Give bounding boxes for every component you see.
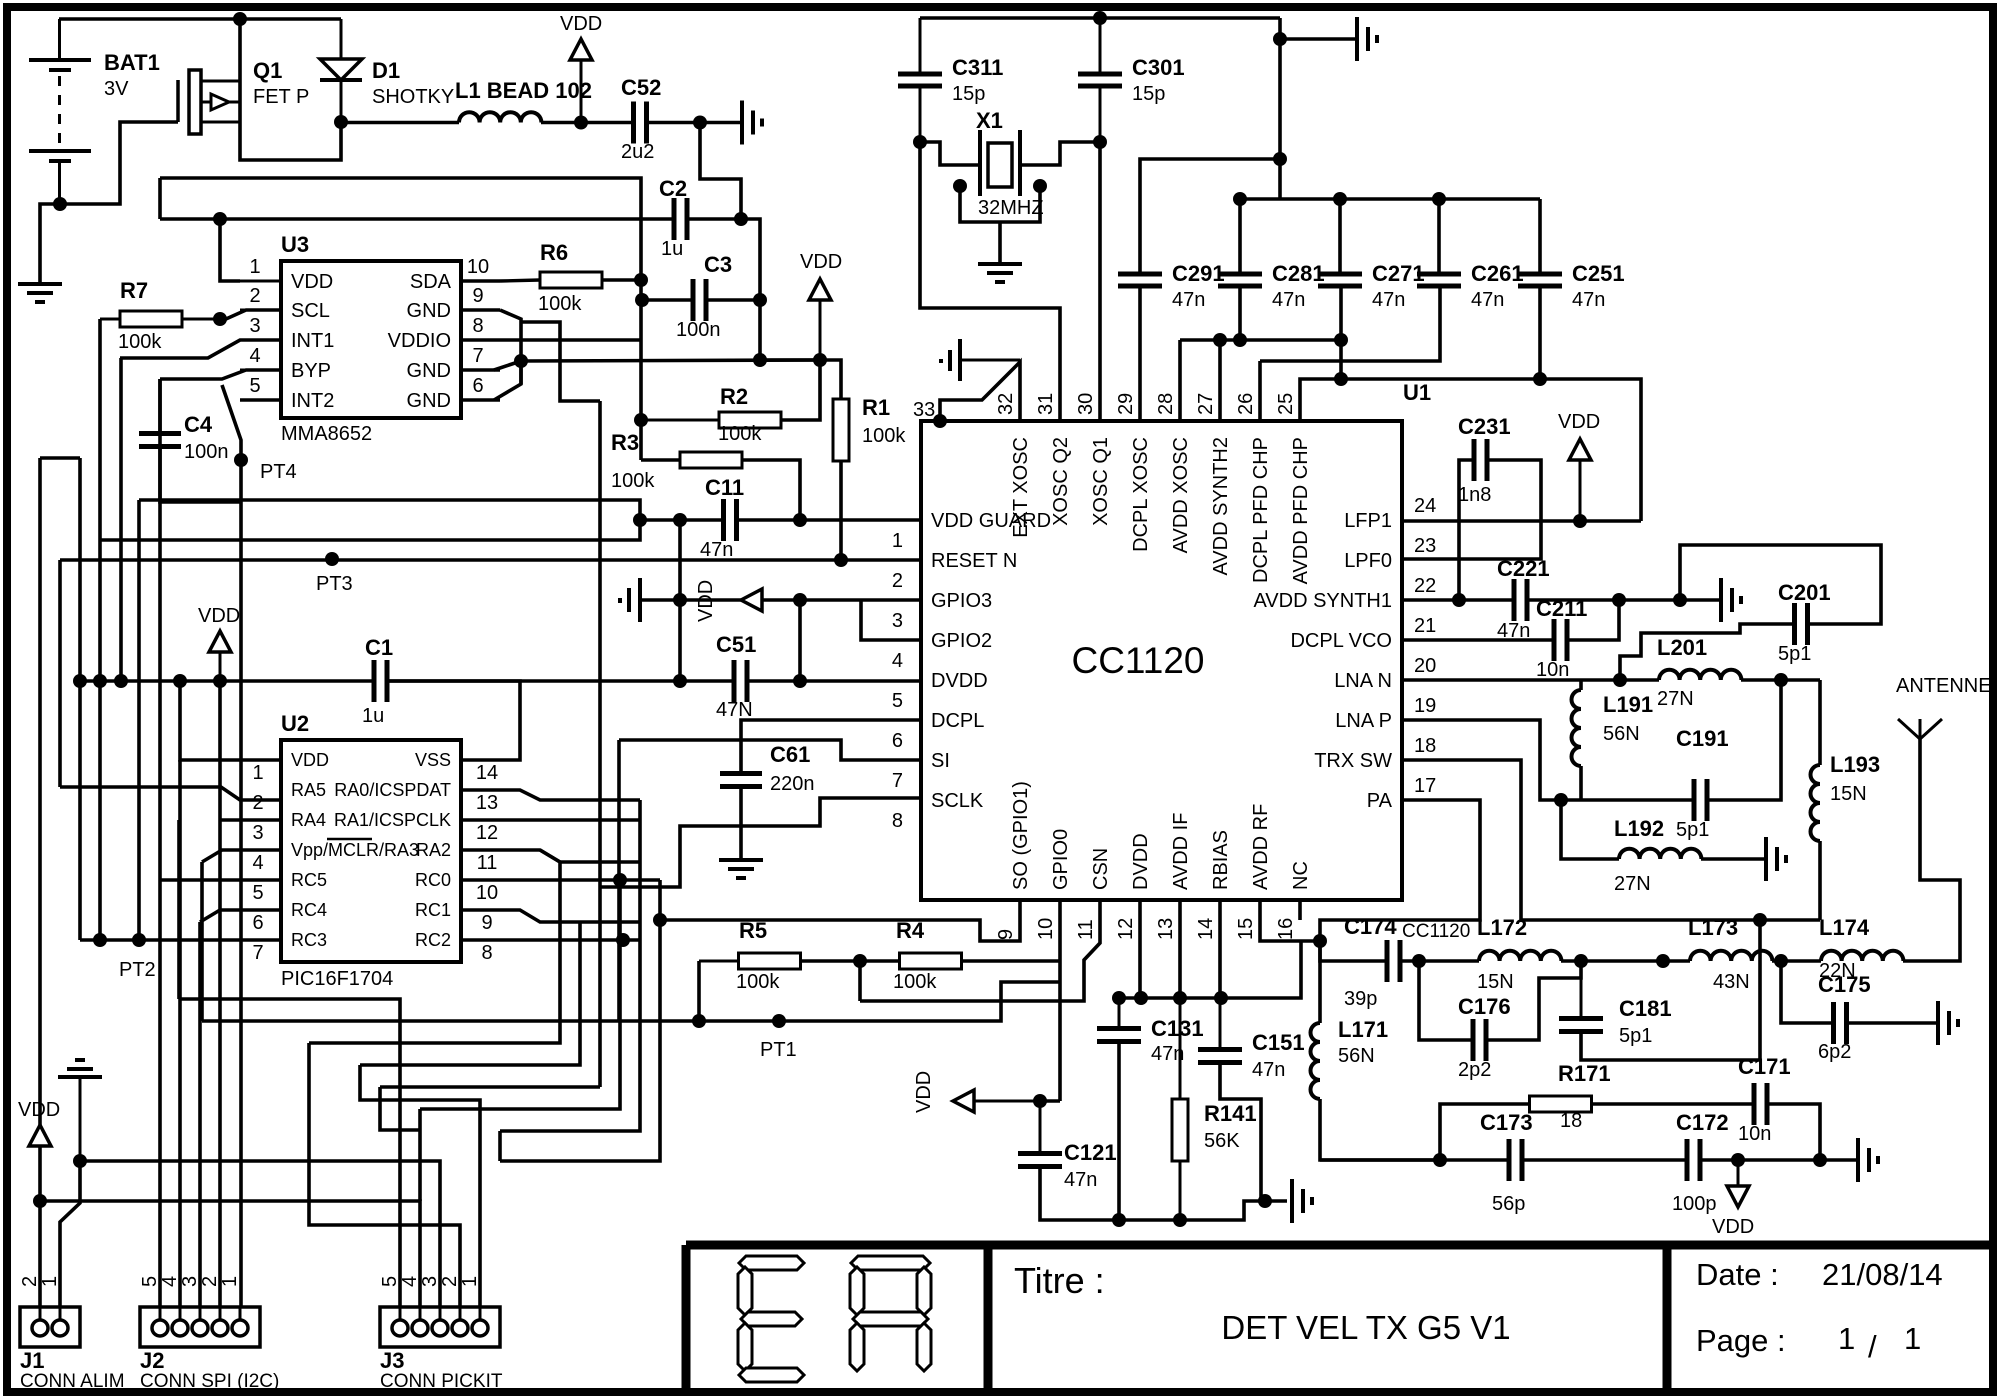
svg-text:47n: 47n bbox=[1572, 289, 1605, 311]
svg-text:R4: R4 bbox=[896, 918, 925, 943]
svg-text:U2: U2 bbox=[281, 711, 309, 736]
svg-text:RC2: RC2 bbox=[415, 930, 451, 950]
X1 case pin a bbox=[953, 179, 967, 193]
svg-text:100n: 100n bbox=[184, 441, 229, 463]
wire pin19 to C191 bbox=[1402, 720, 1694, 800]
svg-text:12: 12 bbox=[1115, 918, 1137, 940]
resistor R2 bbox=[719, 412, 781, 428]
svg-text:56N: 56N bbox=[1338, 1045, 1375, 1067]
svg-text:100p: 100p bbox=[1672, 1193, 1717, 1215]
svg-text:5p1: 5p1 bbox=[1619, 1025, 1652, 1047]
wire C191 right riser bbox=[1707, 680, 1781, 800]
wire C211 right up bbox=[1567, 600, 1619, 640]
svg-text:C251: C251 bbox=[1572, 261, 1625, 286]
svg-text:DCPL PFD CHP: DCPL PFD CHP bbox=[1250, 437, 1272, 583]
junction cap bus c261 bbox=[1432, 192, 1446, 206]
svg-text:PT3: PT3 bbox=[316, 573, 353, 595]
wire DCPL to C61 bbox=[741, 720, 921, 774]
svg-text:PIC16F1704: PIC16F1704 bbox=[281, 968, 393, 990]
svg-text:2p2: 2p2 bbox=[1458, 1059, 1491, 1081]
svg-text:C175: C175 bbox=[1818, 972, 1871, 997]
junction gnd mid bbox=[1258, 1194, 1272, 1208]
wire GPIO3 line bbox=[762, 598, 921, 602]
wire L173 to L174 bbox=[1772, 959, 1821, 963]
wire R171 left bbox=[1440, 1104, 1529, 1160]
rail x179 up bbox=[177, 820, 181, 999]
power VDD (mid upper) bbox=[819, 300, 822, 360]
power VDD (bottom down arrow) bbox=[1737, 1160, 1740, 1186]
junction VDD rail x180 bbox=[173, 674, 187, 688]
rail x40 VDD to J1 bbox=[38, 458, 42, 1318]
transistor Q1 (FET P) bbox=[176, 80, 180, 122]
wire C131 bottom bbox=[1117, 1042, 1121, 1220]
wire x1459 link bbox=[1457, 521, 1461, 600]
power VDD (arrow on GPIO3 line) bbox=[741, 589, 762, 611]
svg-text:L201: L201 bbox=[1657, 635, 1707, 660]
svg-text:EXT XOSC: EXT XOSC bbox=[1010, 437, 1032, 538]
svg-text:21: 21 bbox=[1414, 615, 1436, 637]
wire U2 RC2 feeder bbox=[461, 938, 640, 942]
svg-text:C281: C281 bbox=[1272, 261, 1325, 286]
wire U3 GND6 jog bbox=[494, 361, 521, 400]
svg-text:R5: R5 bbox=[739, 918, 767, 943]
svg-text:RC3: RC3 bbox=[291, 930, 327, 950]
svg-text:17: 17 bbox=[1414, 775, 1436, 797]
svg-text:3: 3 bbox=[179, 1276, 201, 1287]
resistor R7 bbox=[100, 318, 120, 321]
svg-text:J3: J3 bbox=[380, 1348, 404, 1373]
U3 pin 6 (GND) bbox=[461, 398, 500, 401]
wire pin18 TRX SW bbox=[1402, 760, 1820, 920]
bundle v380 bbox=[380, 1087, 420, 1130]
wire L193 bottom bbox=[1818, 841, 1822, 920]
svg-text:CONN ALIM: CONN ALIM bbox=[20, 1371, 125, 1392]
wire VDD node down to R2 bbox=[781, 360, 820, 420]
svg-text:15N: 15N bbox=[1830, 783, 1867, 805]
svg-text:RA0/ICSPDAT: RA0/ICSPDAT bbox=[334, 780, 451, 800]
bundle h2 bbox=[200, 862, 204, 1021]
svg-text:LPF0: LPF0 bbox=[1344, 550, 1392, 572]
wire GND chain to y361 bbox=[521, 360, 820, 361]
wire pin16 NC stub bbox=[1298, 900, 1302, 920]
wire L193 top bbox=[1818, 680, 1822, 765]
junction C251 bottom bbox=[1533, 372, 1547, 386]
wire pin13 stub bbox=[1178, 900, 1182, 998]
wire C201 right loop bbox=[1680, 545, 1881, 624]
junction C171 gnd bbox=[1813, 1153, 1827, 1167]
wire pin21 line bbox=[1402, 638, 1554, 642]
junction topbus gnd bbox=[1273, 32, 1287, 46]
svg-text:VDD: VDD bbox=[18, 1099, 60, 1121]
svg-text:1: 1 bbox=[252, 762, 263, 784]
svg-text:VDD: VDD bbox=[695, 580, 717, 622]
svg-text:PT4: PT4 bbox=[260, 461, 297, 483]
wire rail y178 to x641 bbox=[160, 178, 641, 460]
wire L191 bottom bbox=[1579, 766, 1583, 800]
rail x240 bbox=[239, 560, 243, 1318]
wire y1161 seg2 bbox=[500, 880, 660, 1161]
svg-text:BYP: BYP bbox=[291, 360, 331, 382]
svg-text:23: 23 bbox=[1414, 535, 1436, 557]
capacitor C251 bbox=[1518, 272, 1562, 277]
ground (above J2) bbox=[75, 1058, 85, 1062]
junction GPIO3/VDD bbox=[793, 593, 807, 607]
svg-text:VDD: VDD bbox=[560, 13, 602, 35]
junction R1/RESET bbox=[834, 553, 848, 567]
svg-text:VDD: VDD bbox=[1712, 1216, 1754, 1238]
wire gnd to GPIO3 line bbox=[640, 598, 741, 602]
junction y920 bbox=[1753, 913, 1767, 927]
svg-text:VSS: VSS bbox=[415, 750, 451, 770]
svg-text:C2: C2 bbox=[659, 176, 687, 201]
resistor R6 bbox=[500, 280, 540, 281]
resistor R141 bbox=[1179, 998, 1182, 1099]
capacitor C172 bbox=[1685, 1139, 1690, 1181]
svg-text:4: 4 bbox=[399, 1276, 421, 1287]
wire DVDD rail bbox=[80, 679, 374, 683]
svg-text:1u: 1u bbox=[362, 705, 384, 727]
wire R1 bottom to RESET bbox=[839, 461, 843, 560]
svg-text:C121: C121 bbox=[1064, 1140, 1117, 1165]
svg-text:RC4: RC4 bbox=[291, 900, 327, 920]
wire U3 pin9 route bbox=[521, 322, 600, 401]
svg-text:C231: C231 bbox=[1458, 414, 1511, 439]
svg-text:26: 26 bbox=[1235, 393, 1257, 415]
svg-text:2: 2 bbox=[19, 1276, 41, 1287]
resistor R3 bbox=[680, 452, 742, 468]
inductor L172 bbox=[1479, 951, 1561, 961]
svg-text:10n: 10n bbox=[1738, 1123, 1771, 1145]
svg-text:LNA P: LNA P bbox=[1335, 710, 1392, 732]
svg-text:Titre :: Titre : bbox=[1014, 1260, 1105, 1301]
svg-text:C11: C11 bbox=[705, 475, 744, 500]
IC U2 body bbox=[281, 740, 461, 962]
svg-text:6: 6 bbox=[472, 375, 483, 397]
junction x680 gpio3 bbox=[673, 593, 687, 607]
junction cap bus c271 bbox=[1333, 192, 1347, 206]
svg-text:/: / bbox=[1868, 1329, 1877, 1364]
junction C11 right bbox=[793, 513, 807, 527]
svg-text:C221: C221 bbox=[1497, 556, 1550, 581]
svg-text:U3: U3 bbox=[281, 232, 309, 257]
wire battery minus to Q1 gate bbox=[60, 122, 178, 204]
junction C121 top bbox=[1033, 1094, 1047, 1108]
svg-text:PA: PA bbox=[1367, 790, 1393, 812]
junction pin9/x660 bbox=[653, 913, 667, 927]
wire U2 RA0 feeder bbox=[461, 790, 640, 800]
U3 pin 4 (BYP) bbox=[240, 369, 281, 372]
svg-text:19: 19 bbox=[1414, 695, 1436, 717]
svg-text:VDD: VDD bbox=[913, 1071, 935, 1113]
wire U2 RA5 feeder bbox=[60, 787, 281, 800]
svg-text:16: 16 bbox=[1275, 918, 1297, 940]
wire C176 right bbox=[1486, 961, 1581, 1040]
svg-text:3V: 3V bbox=[104, 78, 129, 100]
svg-text:2u2: 2u2 bbox=[621, 141, 654, 163]
wire battery minus to ground bbox=[40, 204, 60, 282]
svg-text:100k: 100k bbox=[736, 971, 780, 993]
wire pin26 bus bbox=[1260, 286, 1440, 361]
wire pin17 PA bbox=[1320, 800, 1480, 941]
wire U2 RA3 feeder bbox=[202, 850, 281, 862]
svg-text:C181: C181 bbox=[1619, 996, 1672, 1021]
antenna ANTENNE bbox=[1919, 719, 1922, 739]
svg-text:C191: C191 bbox=[1676, 726, 1729, 751]
capacitor C261 bbox=[1417, 272, 1461, 277]
wire RESET N long bbox=[60, 558, 921, 562]
svg-text:L174: L174 bbox=[1819, 915, 1870, 940]
wire L171 bottom bbox=[1320, 1099, 1440, 1160]
svg-text:L172: L172 bbox=[1477, 915, 1527, 940]
svg-text:INT2: INT2 bbox=[291, 390, 334, 412]
wire C1 right to VSS bbox=[387, 681, 520, 760]
svg-text:100k: 100k bbox=[862, 425, 906, 447]
svg-text:9: 9 bbox=[472, 285, 483, 307]
svg-text:47n: 47n bbox=[1471, 289, 1504, 311]
ground (top right) bbox=[1355, 17, 1359, 61]
wire C175 left bbox=[1781, 961, 1834, 1023]
wire top bus bbox=[920, 16, 1280, 20]
capacitor C131 bbox=[1118, 998, 1121, 1028]
svg-text:VDD: VDD bbox=[800, 251, 842, 273]
svg-text:BAT1: BAT1 bbox=[104, 50, 160, 75]
junction PT4 bbox=[234, 453, 248, 467]
ground (battery) bbox=[18, 282, 62, 286]
U3 pin 1 (VDD) bbox=[240, 280, 281, 283]
svg-text:AVDD RF: AVDD RF bbox=[1250, 804, 1272, 890]
svg-text:C271: C271 bbox=[1372, 261, 1425, 286]
capacitor C51 bbox=[732, 660, 737, 702]
svg-text:VDD: VDD bbox=[1558, 411, 1600, 433]
logo EA bbox=[739, 1256, 804, 1270]
svg-text:RC0: RC0 bbox=[415, 870, 451, 890]
wire rail mid bbox=[387, 679, 734, 683]
svg-text:6: 6 bbox=[252, 912, 263, 934]
svg-text:GND: GND bbox=[407, 360, 451, 382]
wire C3 right to VDD rail bbox=[706, 300, 820, 360]
svg-text:LFP1: LFP1 bbox=[1344, 510, 1392, 532]
svg-text:FET P: FET P bbox=[253, 86, 309, 108]
svg-text:J2: J2 bbox=[140, 1348, 164, 1373]
wire U3 GND9 jog bbox=[500, 310, 521, 384]
wire C221 right bbox=[1527, 598, 1719, 602]
svg-text:11: 11 bbox=[477, 852, 498, 874]
svg-text:4: 4 bbox=[252, 852, 263, 874]
wire gnd line mid bbox=[1522, 1158, 1687, 1162]
svg-text:43N: 43N bbox=[1713, 971, 1750, 993]
wire VDD arrow riser bbox=[798, 600, 802, 681]
svg-text:SO (GPIO1): SO (GPIO1) bbox=[1010, 781, 1032, 890]
IC U3 body bbox=[281, 261, 461, 418]
bundle y1131 bbox=[500, 800, 640, 1131]
svg-text:100n: 100n bbox=[676, 319, 721, 341]
wire C11 left bbox=[640, 518, 723, 522]
svg-text:C51: C51 bbox=[716, 632, 756, 657]
resistor R171 bbox=[1530, 1096, 1592, 1112]
U3 pin 3 (INT1) bbox=[240, 339, 281, 342]
U1 pin 33 pad bbox=[933, 414, 947, 428]
junction L174 left bbox=[1774, 954, 1788, 968]
svg-text:RC5: RC5 bbox=[291, 870, 327, 890]
junction bus C131 bbox=[1112, 991, 1126, 1005]
svg-text:INT1: INT1 bbox=[291, 330, 334, 352]
wire C201 left stair bbox=[1620, 624, 1795, 680]
svg-text:1: 1 bbox=[249, 256, 260, 278]
IC U1 CC1120 body bbox=[921, 421, 1402, 900]
svg-text:J1: J1 bbox=[20, 1348, 44, 1373]
svg-text:47N: 47N bbox=[716, 699, 753, 721]
wire PT1 line bbox=[202, 982, 1060, 1021]
wire GPIO2 tie bbox=[861, 600, 921, 640]
wire y1161 line bbox=[80, 1161, 440, 1318]
svg-text:47n: 47n bbox=[1252, 1059, 1285, 1081]
svg-text:5: 5 bbox=[252, 882, 263, 904]
svg-text:9: 9 bbox=[481, 912, 492, 934]
svg-text:C291: C291 bbox=[1172, 261, 1225, 286]
junction RC3 b bbox=[132, 933, 146, 947]
wire pin33 to pin32/ground bbox=[940, 362, 1020, 421]
wire C291 to pin29 bbox=[1138, 286, 1142, 421]
svg-text:SI: SI bbox=[931, 750, 950, 772]
capacitor C52 bbox=[631, 102, 636, 144]
svg-text:2: 2 bbox=[199, 1276, 221, 1287]
svg-text:8: 8 bbox=[892, 810, 903, 832]
svg-text:GPIO3: GPIO3 bbox=[931, 590, 992, 612]
junction bus p14 bbox=[1214, 991, 1228, 1005]
svg-text:100k: 100k bbox=[893, 971, 937, 993]
svg-text:2: 2 bbox=[252, 792, 263, 814]
rail x100 bbox=[98, 319, 102, 940]
svg-text:1: 1 bbox=[1838, 1321, 1855, 1356]
svg-text:56p: 56p bbox=[1492, 1193, 1525, 1215]
capacitor C171 bbox=[1752, 1083, 1757, 1125]
ground (pin 32/33) bbox=[958, 339, 962, 381]
svg-text:TRX SW: TRX SW bbox=[1314, 750, 1392, 772]
capacitor C291 bbox=[1118, 272, 1162, 277]
junction y360 C3 riser bbox=[753, 353, 767, 367]
svg-text:31: 31 bbox=[1035, 393, 1057, 415]
rail x60 bbox=[58, 560, 62, 787]
svg-text:C211: C211 bbox=[1536, 596, 1587, 621]
wire C171 right bbox=[1767, 1104, 1820, 1160]
svg-text:56K: 56K bbox=[1204, 1130, 1240, 1152]
svg-text:100k: 100k bbox=[118, 331, 162, 353]
junction R6 right bbox=[634, 273, 648, 287]
svg-text:C301: C301 bbox=[1132, 55, 1185, 80]
wire X1-left to pin31 bbox=[920, 142, 1060, 421]
wire Q1 source loop bbox=[240, 81, 341, 160]
wire U2 RC0 feeder bbox=[461, 878, 660, 882]
junction rail-C2 left at x220 bbox=[213, 212, 227, 226]
wire to top right ground bbox=[1280, 37, 1355, 41]
rail x220 bbox=[218, 681, 222, 1318]
svg-text:18: 18 bbox=[1414, 735, 1436, 757]
junction C2 right bbox=[734, 212, 748, 226]
wire C121 bottom bbox=[1040, 1167, 1287, 1220]
svg-text:11: 11 bbox=[1075, 919, 1097, 940]
junction L201 right bbox=[1774, 673, 1788, 687]
svg-text:47n: 47n bbox=[1172, 289, 1205, 311]
rail x139 bbox=[137, 500, 141, 940]
ground (X1) bbox=[978, 262, 1022, 266]
wire U2 RC1 feeder bbox=[461, 910, 640, 922]
svg-text:1: 1 bbox=[892, 530, 903, 552]
svg-text:CONN PICKIT: CONN PICKIT bbox=[380, 1371, 503, 1392]
wire C151 bottom bbox=[1220, 1063, 1261, 1201]
wire SCLK feeder bbox=[600, 798, 921, 887]
U3 pin 9 (GND) bbox=[461, 308, 500, 311]
svg-text:5p1: 5p1 bbox=[1676, 819, 1709, 841]
inductor L192 bbox=[1619, 849, 1701, 859]
ground (on GPIO3 line) bbox=[638, 578, 642, 622]
svg-text:20: 20 bbox=[1414, 655, 1436, 677]
ground (C175) bbox=[1936, 1001, 1940, 1045]
junction pin22 b bbox=[1612, 593, 1626, 607]
X1 case pin b bbox=[1033, 179, 1047, 193]
wire U2 RC3 feeder bbox=[80, 938, 281, 942]
svg-text:C176: C176 bbox=[1458, 994, 1511, 1019]
junction C176 tap bbox=[1412, 954, 1426, 968]
wire J1 pin1 riser bbox=[60, 1161, 80, 1318]
wire L192 right bbox=[1701, 857, 1764, 861]
wire L192 left bbox=[1561, 800, 1619, 859]
junction L173 left bbox=[1656, 954, 1670, 968]
capacitor C231 bbox=[1472, 439, 1477, 481]
wire U3 INT2 stub bbox=[240, 398, 281, 402]
rail x80 bbox=[78, 458, 82, 940]
wire U3 VDDIO line bbox=[500, 338, 641, 342]
svg-text:10: 10 bbox=[1035, 918, 1057, 940]
wire y458 link bbox=[40, 456, 80, 460]
svg-text:R171: R171 bbox=[1558, 1061, 1611, 1086]
svg-text:RBIAS: RBIAS bbox=[1210, 830, 1232, 890]
junction DVDD b bbox=[793, 674, 807, 688]
svg-text:R7: R7 bbox=[120, 278, 148, 303]
svg-text:7: 7 bbox=[892, 770, 903, 792]
svg-text:39p: 39p bbox=[1344, 988, 1377, 1010]
capacitor C1 bbox=[372, 660, 377, 702]
junction cap bus c281 bbox=[1233, 192, 1247, 206]
svg-text:7: 7 bbox=[472, 345, 483, 367]
junction R2 left bbox=[634, 413, 648, 427]
junction PT3 bbox=[325, 552, 339, 566]
power VDD (bottom middle) bbox=[953, 1090, 974, 1112]
wire pin11 jog bbox=[860, 900, 1100, 1001]
U3 pin 8 (VDDIO) bbox=[461, 338, 500, 341]
svg-text:33: 33 bbox=[913, 399, 935, 421]
capacitor C211 bbox=[1552, 619, 1557, 661]
wire pin24 LFP1 bbox=[1402, 519, 1641, 523]
svg-text:D1: D1 bbox=[372, 58, 400, 83]
wire D1 to L1 bbox=[341, 121, 459, 125]
wire C181 bottom bbox=[1581, 920, 1760, 1060]
wire C3 left bbox=[641, 298, 693, 302]
svg-text:RA2: RA2 bbox=[416, 840, 451, 860]
wire L201 right bbox=[1741, 678, 1820, 682]
svg-text:Q1: Q1 bbox=[253, 58, 282, 83]
bundle v420 bbox=[418, 1109, 422, 1201]
svg-text:Page :: Page : bbox=[1696, 1323, 1786, 1358]
svg-text:XOSC Q2: XOSC Q2 bbox=[1050, 437, 1072, 526]
capacitor C61 bbox=[720, 771, 762, 776]
svg-text:PT1: PT1 bbox=[760, 1039, 797, 1061]
svg-text:C174: C174 bbox=[1344, 914, 1397, 939]
capacitor C311 bbox=[919, 18, 922, 74]
rail x121 bbox=[119, 358, 123, 681]
svg-text:15N: 15N bbox=[1477, 971, 1514, 993]
capacitor C173 bbox=[1507, 1139, 1512, 1181]
wire C2 right down bbox=[687, 219, 760, 300]
